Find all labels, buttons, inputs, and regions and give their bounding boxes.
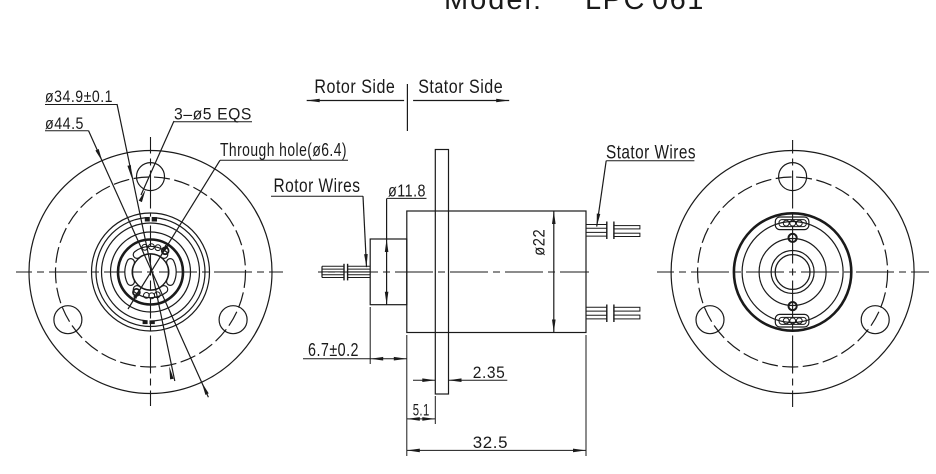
- right top bolt hole: [779, 163, 807, 191]
- svg-text:ø34.9±0.1: ø34.9±0.1: [45, 88, 113, 106]
- rotor wire bar 1: [343, 264, 345, 281]
- ext line body right: [585, 335, 587, 456]
- svg-text:32.5: 32.5: [473, 433, 508, 452]
- right bold stator ring: [734, 213, 851, 330]
- rotor side arrow line: [307, 100, 404, 102]
- right lower-left bolt hole: [696, 306, 724, 334]
- left ring r40: [111, 232, 191, 312]
- svg-text:Through hole(ø6.4): Through hole(ø6.4): [220, 140, 347, 160]
- svg-text:3–ø5 EQS: 3–ø5 EQS: [174, 106, 252, 124]
- left ring r54.5: [96, 218, 205, 327]
- svg-text:ø22: ø22: [530, 229, 549, 256]
- right bottom connector: [775, 314, 809, 327]
- header divider: [406, 84, 408, 131]
- dim 2.35: [413, 379, 435, 381]
- 3-dia5 leader: [141, 121, 174, 195]
- svg-text:Model:: Model:: [444, 0, 543, 16]
- right bottom wire hole (bold): [789, 302, 797, 310]
- ext line body left: [406, 335, 408, 456]
- through hole leader: [128, 160, 220, 309]
- left top wire hole (bold): [162, 247, 169, 254]
- rotor wire bar 2: [347, 264, 349, 281]
- right outer flange circle: [671, 151, 914, 394]
- dia11.8 dim line: [386, 198, 388, 304]
- right vertical centerline: [792, 140, 794, 407]
- svg-text:5.1: 5.1: [413, 401, 430, 420]
- left outer flange circle ø44.5: [29, 151, 272, 394]
- right through hole: [775, 255, 810, 290]
- middle horizontal centerline: [318, 271, 589, 273]
- right top connector: [775, 217, 809, 230]
- stator side arrow line: [413, 100, 509, 102]
- left view vertical centerline: [150, 137, 152, 406]
- rotor wires leader: [363, 196, 367, 267]
- svg-text:2.35: 2.35: [473, 363, 506, 382]
- left through hole ø6.4: [133, 254, 169, 290]
- ext line hub left: [369, 307, 371, 364]
- left ring r59: [92, 213, 210, 331]
- left top key tick: [145, 217, 157, 221]
- left top bolt hole ø5: [137, 163, 165, 191]
- svg-text:061: 061: [652, 0, 705, 16]
- dia 34.9 dimension line: [117, 104, 175, 381]
- 6.7 dim line: [303, 358, 407, 360]
- left top connector circles: [142, 244, 148, 250]
- svg-text:Rotor Wires: Rotor Wires: [274, 175, 361, 197]
- stator wires top: [586, 224, 607, 226]
- left bottom key tick: [143, 321, 155, 325]
- left lower-left bolt hole ø5: [54, 306, 82, 334]
- left bolt circle ø34.9 dashed: [56, 177, 246, 367]
- svg-text:Rotor Side: Rotor Side: [314, 77, 395, 98]
- svg-text:LPC: LPC: [585, 0, 646, 16]
- svg-text:ø11.8: ø11.8: [388, 181, 426, 201]
- svg-text:Stator Side: Stator Side: [418, 77, 503, 98]
- left lower-right bolt hole ø5: [219, 306, 247, 334]
- stator wires leader: [597, 161, 607, 227]
- right horizontal centerline: [657, 271, 929, 273]
- left bottom wire hole (bold): [133, 289, 140, 296]
- dia22 dimension: [553, 211, 555, 333]
- right ring r33.5: [759, 239, 826, 306]
- left slots (4 curved stadium slots): [170, 262, 172, 281]
- left ring r49: [102, 223, 200, 321]
- right lower-right bolt hole: [861, 306, 889, 334]
- right ring r50.5: [742, 222, 843, 323]
- svg-text:6.7±0.2: 6.7±0.2: [308, 340, 359, 360]
- ext line flange left: [434, 396, 436, 424]
- rotor wires: [322, 265, 344, 267]
- flange rect: [435, 150, 448, 395]
- right top wire hole (bold): [789, 234, 797, 242]
- stator body rect: [407, 211, 586, 333]
- left bold rotor ring: [118, 240, 183, 305]
- rotor hub rect: [370, 239, 407, 305]
- dia 44.5 dimension line: [89, 131, 209, 398]
- stator wires bottom: [586, 306, 607, 308]
- left bottom connector circles: [144, 293, 150, 299]
- right hole chamfer ring: [771, 251, 814, 294]
- left view horizontal centerline: [16, 271, 283, 273]
- right bolt circle dashed: [698, 177, 888, 367]
